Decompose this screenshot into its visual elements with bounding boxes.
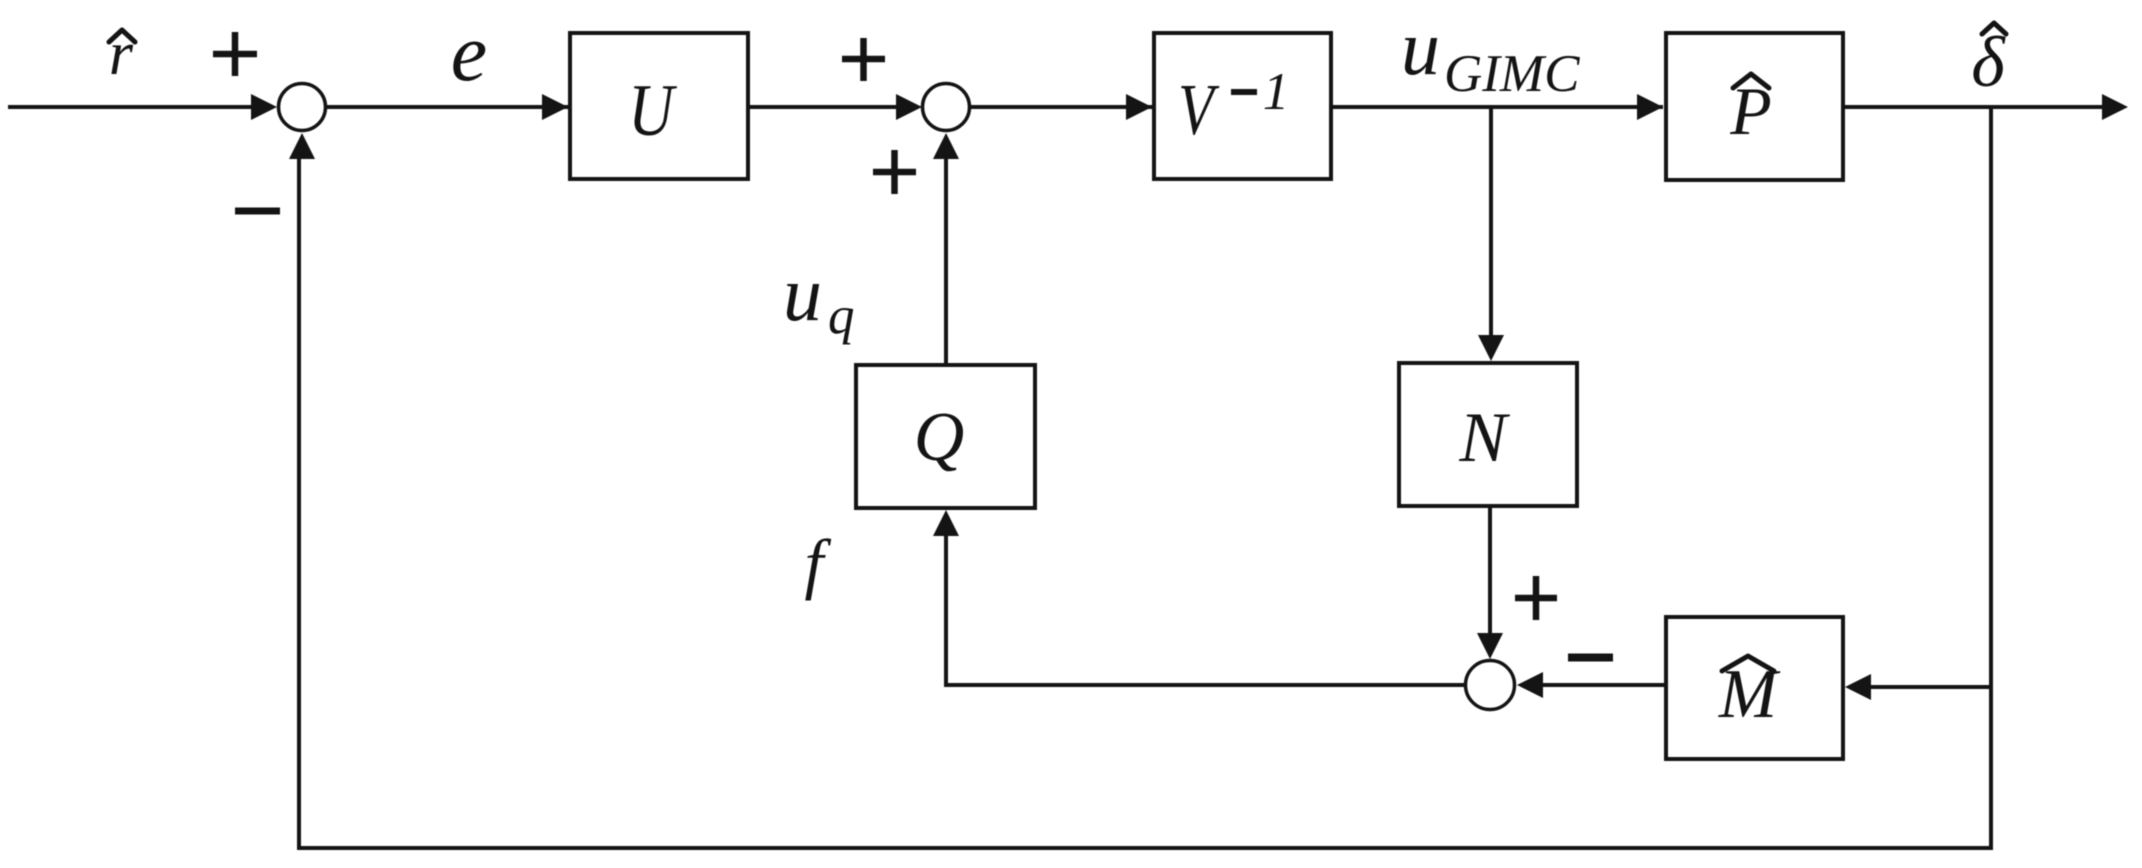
- svg-text:M: M: [1718, 656, 1781, 733]
- svg-text:P: P: [1729, 73, 1772, 149]
- svg-text:u: u: [783, 250, 822, 337]
- svg-text:N: N: [1458, 399, 1510, 477]
- svg-text:δ: δ: [1971, 22, 2006, 102]
- svg-text:1: 1: [1263, 63, 1290, 121]
- svg-text:u: u: [1401, 4, 1440, 91]
- svg-text:Q: Q: [914, 399, 965, 476]
- svg-text:GIMC: GIMC: [1444, 45, 1580, 103]
- svg-text:U: U: [628, 69, 677, 151]
- svg-text:V: V: [1178, 70, 1220, 151]
- svg-text:e: e: [451, 7, 487, 98]
- svg-text:q: q: [828, 287, 855, 345]
- svg-text:r: r: [109, 20, 134, 88]
